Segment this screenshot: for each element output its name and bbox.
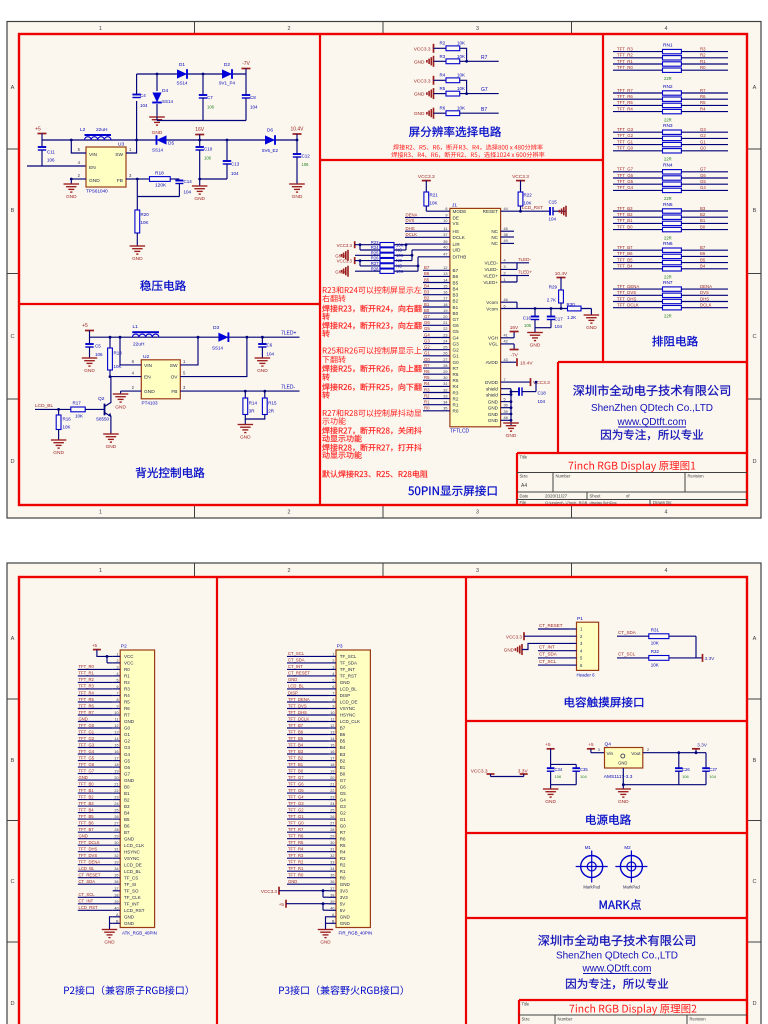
svg-text:G3: G3	[340, 804, 347, 809]
P3 pin 3 TF_INT	[329, 668, 337, 670]
svg-text:-7V: -7V	[510, 353, 518, 359]
pin 2	[70, 178, 73, 181]
pin GND 39	[501, 413, 511, 415]
svg-text:GND: GND	[335, 253, 345, 258]
svg-text:C: C	[752, 334, 756, 340]
P3 pin 26 G1	[329, 818, 337, 820]
net TFT_G7	[287, 779, 329, 781]
svg-text:22: 22	[114, 789, 118, 793]
svg-text:R2: R2	[124, 680, 130, 685]
net CT_INT	[78, 903, 113, 905]
pin 2 GND	[121, 390, 142, 392]
svg-text:G0: G0	[124, 726, 131, 731]
wire R14 R15 join	[245, 415, 264, 420]
svg-text:SW: SW	[170, 363, 178, 369]
ground AMS	[616, 788, 632, 790]
svg-text:www.QDtft.com: www.QDtft.com	[617, 417, 687, 428]
svg-text:R28: R28	[371, 266, 379, 271]
svg-text:B2: B2	[424, 296, 430, 301]
svg-text:B4: B4	[453, 286, 459, 291]
P3 pin 6 LCD_BL	[329, 688, 337, 690]
P3 pin 8 LCD_DE	[329, 701, 337, 703]
svg-text:VCC3.3: VCC3.3	[261, 889, 278, 894]
svg-text:L1: L1	[133, 324, 139, 330]
svg-text:1.2K: 1.2K	[567, 315, 576, 320]
svg-text:CT_SDA: CT_SDA	[288, 658, 305, 663]
resistor RN1.1	[613, 51, 663, 53]
svg-text:15: 15	[443, 284, 447, 288]
svg-text:G2: G2	[340, 810, 347, 815]
svg-text:C35: C35	[580, 767, 588, 772]
svg-text:TFT_R2: TFT_R2	[617, 53, 633, 58]
P3 pin 34 R1	[329, 870, 337, 872]
net TFT_R4	[78, 695, 113, 697]
svg-text:R27: R27	[371, 261, 379, 266]
svg-text:TF_SDA: TF_SDA	[340, 661, 357, 666]
svg-text:18: 18	[114, 763, 118, 767]
P2 pin 33 LCD_DE	[113, 864, 121, 866]
svg-text:9V1_P4: 9V1_P4	[219, 81, 236, 86]
svg-text:R5: R5	[124, 700, 130, 705]
section title regulator	[140, 280, 186, 291]
resistor RN4.3	[613, 183, 663, 185]
svg-text:23: 23	[114, 796, 118, 800]
svg-text:C11: C11	[47, 150, 55, 155]
svg-text:26: 26	[443, 352, 447, 356]
charge pump vertical	[136, 101, 138, 140]
svg-text:3R: 3R	[249, 409, 256, 414]
wire out caps gnd	[623, 784, 706, 786]
ground C6	[255, 357, 271, 359]
svg-text:ATK_RGB_40PIN: ATK_RGB_40PIN	[122, 931, 157, 936]
connector P3 body	[336, 650, 370, 928]
svg-text:B1: B1	[700, 218, 706, 223]
svg-text:TFT_G1: TFT_G1	[79, 729, 95, 734]
svg-text:C: C	[10, 334, 14, 340]
svg-text:GND: GND	[89, 178, 100, 184]
svg-text:35: 35	[330, 874, 334, 878]
net TFT_G1	[78, 734, 113, 736]
svg-text:GND: GND	[144, 389, 155, 395]
svg-text:3: 3	[504, 265, 506, 269]
svg-text:A: A	[11, 636, 15, 642]
svg-text:TFT_DVS: TFT_DVS	[79, 853, 98, 858]
svg-text:TFT_R0: TFT_R0	[617, 65, 633, 70]
page 2 sheet background	[7, 563, 761, 1024]
svg-text:R20: R20	[141, 212, 150, 217]
svg-text:TFT_G4: TFT_G4	[617, 185, 634, 190]
pin G5	[423, 330, 450, 332]
svg-text:GND: GND	[340, 921, 351, 926]
svg-text:www.QDtft.com: www.QDtft.com	[582, 964, 652, 975]
svg-text:3V3: 3V3	[340, 889, 349, 894]
svg-text:GND: GND	[545, 799, 556, 805]
svg-text:GND: GND	[335, 269, 345, 274]
resistor RN4.1	[613, 171, 663, 173]
svg-text:TFT_R3: TFT_R3	[617, 46, 633, 51]
svg-text:U/D: U/D	[453, 248, 462, 253]
P2 pin 35 TF_CS	[113, 877, 121, 879]
svg-text:R5: R5	[424, 375, 430, 380]
svg-text:TFT_B0: TFT_B0	[79, 781, 95, 786]
pin Vcom 6	[501, 308, 517, 310]
net TFT_B3	[287, 753, 329, 755]
P3 pin 5 GND	[329, 681, 337, 683]
P3 pin 37 3V3	[329, 890, 337, 892]
svg-text:46: 46	[504, 298, 508, 302]
page1 top zone band	[194, 22, 196, 35]
svg-text:TFT_R6: TFT_R6	[288, 834, 304, 839]
power flag VCC3.3 cluster 2	[354, 257, 356, 264]
capacitor C6	[261, 336, 264, 339]
svg-text:G1: G1	[340, 817, 347, 822]
net TFT_R1	[78, 675, 113, 677]
section title resolution	[409, 126, 501, 137]
svg-text:TFT_B0: TFT_B0	[288, 768, 304, 773]
svg-text:2: 2	[332, 659, 334, 663]
fiducial M1 MarkPad	[581, 856, 603, 878]
svg-text:31: 31	[114, 848, 118, 852]
svg-text:C14: C14	[184, 179, 193, 184]
svg-text:C: C	[752, 879, 756, 885]
svg-text:RN5: RN5	[663, 202, 673, 208]
svg-text:G2: G2	[124, 739, 131, 744]
wire gnd bus	[510, 389, 512, 425]
svg-text:P2: P2	[121, 644, 127, 650]
svg-text:TF_INT: TF_INT	[124, 902, 140, 907]
svg-text:LCD_BL: LCD_BL	[35, 403, 53, 409]
svg-text:14: 14	[114, 737, 118, 741]
capacitor C18	[510, 390, 513, 393]
pin VLED+ 1	[501, 281, 517, 283]
svg-text:B1: B1	[340, 765, 346, 770]
svg-text:B3: B3	[124, 804, 130, 809]
svg-text:TFT_R3: TFT_R3	[79, 684, 95, 689]
svg-text:R21: R21	[430, 193, 439, 198]
svg-text:34: 34	[330, 867, 334, 871]
svg-text:Q4: Q4	[605, 742, 612, 748]
pin R6	[423, 373, 450, 375]
svg-text:CT_RESET: CT_RESET	[539, 623, 563, 628]
svg-text:R5: R5	[440, 86, 446, 91]
P1 pin 2	[569, 635, 577, 637]
pin 5 OV	[180, 337, 247, 376]
net CT_SCL	[78, 896, 113, 898]
net TFT_G7	[78, 773, 113, 775]
svg-text:5: 5	[332, 678, 334, 682]
wire Vcom node	[516, 302, 518, 308]
ground R16	[51, 439, 66, 441]
svg-text:TFT_R5: TFT_R5	[79, 697, 95, 702]
svg-text:B5: B5	[340, 739, 346, 744]
svg-text:20: 20	[443, 315, 447, 319]
svg-text:C18: C18	[538, 391, 547, 396]
net DISP	[287, 695, 329, 697]
svg-text:Vcom: Vcom	[486, 306, 498, 311]
svg-text:TFT_R0: TFT_R0	[288, 873, 304, 878]
svg-text:GND: GND	[53, 450, 64, 456]
wire main rail	[42, 139, 297, 141]
svg-text:TFT_B2: TFT_B2	[617, 212, 633, 217]
svg-text:TFT_B0: TFT_B0	[617, 224, 633, 229]
P3 pin 31 R4	[329, 851, 337, 853]
svg-text:B4: B4	[700, 264, 706, 269]
svg-text:R0: R0	[453, 409, 459, 414]
svg-text:22R: 22R	[664, 157, 672, 162]
svg-text:CT_SCL: CT_SCL	[539, 659, 557, 664]
resistor RN6.2	[613, 255, 663, 257]
net TFT_B2	[78, 799, 113, 801]
svg-text:2: 2	[288, 510, 291, 516]
pin G3	[423, 343, 450, 345]
svg-text:DE: DE	[453, 215, 459, 220]
svg-text:B2: B2	[700, 212, 706, 217]
net CT_SCL	[287, 655, 329, 657]
svg-text:G2: G2	[424, 345, 430, 350]
svg-text:7: 7	[504, 378, 506, 382]
svg-text:C17: C17	[555, 316, 564, 321]
svg-text:7LED-: 7LED-	[281, 385, 296, 391]
svg-text:TFT_G3: TFT_G3	[617, 127, 634, 132]
svg-text:G6: G6	[700, 173, 706, 178]
resistor RN2.4	[613, 111, 663, 113]
page 1 sheet background	[7, 22, 761, 519]
pin G1	[423, 355, 450, 357]
P3 pin B GND	[329, 922, 337, 924]
svg-text:R5: R5	[453, 378, 459, 383]
svg-text:B2: B2	[124, 797, 130, 802]
pin B1	[423, 306, 450, 308]
svg-text:20: 20	[330, 776, 334, 780]
svg-text:FB: FB	[117, 178, 123, 184]
svg-text:TFT_G2: TFT_G2	[288, 807, 304, 812]
svg-text:41: 41	[504, 334, 508, 338]
svg-text:38: 38	[504, 233, 508, 237]
net TFT_G2	[78, 740, 113, 742]
svg-text:HSYNC: HSYNC	[124, 849, 141, 854]
svg-text:2: 2	[288, 26, 291, 32]
P2 pin 2 VCC	[113, 662, 121, 664]
svg-text:106: 106	[302, 162, 310, 167]
svg-text:2: 2	[288, 568, 291, 574]
resistor RN3.2	[613, 137, 663, 139]
svg-text:1: 1	[332, 652, 334, 656]
svg-text:104: 104	[267, 352, 275, 357]
svg-text:G5: G5	[700, 179, 706, 184]
resistor RN3.1	[613, 131, 663, 133]
svg-text:TFT_R4: TFT_R4	[79, 690, 95, 695]
svg-text:R24: R24	[371, 245, 379, 250]
svg-text:31: 31	[330, 848, 334, 852]
net TFT_B6	[287, 734, 329, 736]
svg-text:R3: R3	[453, 390, 459, 395]
net CT_SCL	[538, 664, 569, 666]
svg-text:30: 30	[114, 841, 118, 845]
svg-text:MarkPad: MarkPad	[623, 885, 640, 890]
svg-text:GND: GND	[79, 775, 88, 780]
annotation red text block	[323, 286, 422, 293]
P2 pin 40 LCD_RST	[113, 909, 121, 911]
svg-text:CT_SCL: CT_SCL	[79, 892, 96, 897]
svg-text:G4: G4	[453, 335, 460, 340]
resistor R16	[57, 408, 60, 411]
P2 pin 36 TF_SI	[113, 883, 121, 885]
svg-text:R3: R3	[424, 387, 430, 392]
svg-text:7LED+: 7LED+	[518, 270, 532, 275]
P2 pin 39 TF_INT	[113, 903, 121, 905]
P2 pin 22 B1	[113, 792, 121, 794]
svg-text:G5: G5	[424, 326, 430, 331]
capacitor C5	[89, 337, 91, 344]
pin shield 2	[501, 394, 511, 396]
svg-text:R7: R7	[340, 830, 346, 835]
svg-text:C27: C27	[709, 767, 717, 772]
pin R3	[423, 392, 450, 394]
P2 pin 13 G1	[113, 734, 121, 736]
svg-text:NC: NC	[491, 229, 498, 234]
svg-text:EN: EN	[89, 165, 96, 171]
svg-text:10K: 10K	[651, 641, 659, 646]
svg-text:B: B	[753, 208, 757, 214]
net TFT_R7	[78, 714, 113, 716]
svg-text:3: 3	[598, 748, 600, 752]
svg-text:R0: R0	[124, 667, 130, 672]
wire R4 to node	[460, 80, 467, 93]
net TFT_G5	[78, 760, 113, 762]
P2 pin 3 R0	[113, 668, 121, 670]
svg-text:AVDD: AVDD	[486, 360, 499, 365]
svg-text:GND: GND	[586, 325, 597, 331]
svg-text:39: 39	[114, 900, 118, 904]
pin R1	[423, 404, 450, 406]
svg-text:37: 37	[114, 887, 118, 891]
svg-text:106: 106	[524, 323, 532, 328]
connector J1 TFTLCD body	[450, 208, 501, 426]
svg-text:VSYNC: VSYNC	[340, 706, 356, 711]
svg-text:G5: G5	[453, 329, 460, 334]
svg-text:GND: GND	[618, 760, 627, 765]
svg-text:TFT_B4: TFT_B4	[288, 742, 304, 747]
wire pump top rail	[137, 73, 246, 75]
P2 pin 14 G2	[113, 740, 121, 742]
svg-text:B0: B0	[124, 784, 130, 789]
svg-text:VIN: VIN	[144, 363, 153, 369]
ground C16 C17	[527, 332, 543, 334]
net TFT_B7	[287, 727, 329, 729]
svg-text:2: 2	[504, 271, 506, 275]
svg-text:TFT_DVS: TFT_DVS	[288, 703, 307, 708]
svg-text:G7: G7	[424, 314, 430, 319]
svg-text:TFT_G7: TFT_G7	[79, 768, 95, 773]
ground pin2	[70, 179, 72, 184]
svg-text:TFT_R6: TFT_R6	[617, 94, 633, 99]
svg-text:B4: B4	[124, 810, 130, 815]
ground C10	[192, 185, 208, 187]
P2 pin 21 B0	[113, 786, 121, 788]
P2 pin 4 R1	[113, 675, 121, 677]
svg-text:43: 43	[504, 358, 508, 362]
wire R27 left	[360, 265, 380, 267]
resistor RN7.3	[613, 301, 663, 303]
resistor R29	[559, 290, 564, 303]
power flag 16V	[198, 139, 201, 142]
svg-text:DHS: DHS	[406, 226, 415, 231]
svg-text:VS: VS	[453, 221, 459, 226]
P3 pin 33 R2	[329, 864, 337, 866]
svg-text:P3: P3	[337, 644, 343, 650]
resistor R14	[244, 390, 247, 393]
svg-text:GND: GND	[106, 444, 117, 450]
svg-text:VCC: VCC	[124, 661, 134, 666]
P3 pin 11 LCD_CLK	[329, 721, 337, 723]
P3 pin 13 B6	[329, 734, 337, 736]
resistor RN5.2	[613, 216, 663, 218]
svg-text:GND: GND	[66, 194, 77, 200]
resistor R20	[136, 179, 138, 210]
resistor R31	[649, 634, 669, 639]
resistor R5	[446, 91, 460, 96]
svg-text:VGL: VGL	[489, 342, 499, 347]
svg-text:TFT_DHS: TFT_DHS	[288, 710, 307, 715]
svg-text:GND: GND	[288, 879, 297, 884]
svg-text:DCLK: DCLK	[406, 232, 418, 237]
svg-text:3: 3	[332, 665, 334, 669]
svg-text:R16: R16	[63, 417, 72, 422]
P3 pin 39 5V	[329, 903, 337, 905]
svg-text:R7: R7	[481, 55, 488, 61]
svg-text:27: 27	[114, 822, 118, 826]
svg-text:GND: GND	[84, 368, 95, 374]
svg-text:Vcom: Vcom	[486, 300, 498, 305]
svg-text:MarkPad: MarkPad	[583, 885, 600, 890]
svg-text:106: 106	[555, 774, 562, 779]
pin NC45	[501, 230, 514, 232]
P2 pin 12 G0	[113, 727, 121, 729]
P2 pin 8 R5	[113, 701, 121, 703]
svg-text:9: 9	[332, 705, 334, 709]
svg-text:R1: R1	[124, 674, 130, 679]
P3 pin 12 B7	[329, 727, 337, 729]
svg-text:10K: 10K	[457, 86, 465, 91]
svg-text:22: 22	[330, 789, 334, 793]
pin G6	[423, 324, 450, 326]
svg-text:16: 16	[443, 291, 447, 295]
net LCD_BL	[78, 870, 113, 872]
svg-text:R1: R1	[424, 400, 430, 405]
svg-text:Title: Title	[520, 455, 528, 460]
svg-text:TFT_R1: TFT_R1	[79, 671, 95, 676]
wire R24 left	[360, 249, 380, 251]
net TFT_B6	[78, 825, 113, 827]
net R7	[465, 60, 468, 63]
svg-text:33: 33	[114, 861, 118, 865]
svg-text:G:\project\..\7inch_RGB_displa: G:\project\..\7inch_RGB_display.SchDoc	[545, 500, 617, 505]
section title P3	[279, 985, 403, 995]
svg-text:B6: B6	[424, 271, 430, 276]
diode D3	[218, 333, 228, 342]
ground J1 bus	[503, 422, 519, 424]
svg-text:3.3V: 3.3V	[697, 742, 708, 748]
svg-text:TFT_B5: TFT_B5	[79, 814, 95, 819]
net TFT_G3	[287, 805, 329, 807]
ground R14 R15	[238, 424, 254, 426]
svg-text:R2: R2	[424, 393, 430, 398]
svg-text:B7: B7	[124, 830, 130, 835]
svg-text:TFT_DCLK: TFT_DCLK	[79, 840, 100, 845]
svg-text:CT_INT: CT_INT	[539, 645, 555, 650]
svg-text:120K: 120K	[155, 183, 167, 189]
svg-text:5V: 5V	[340, 902, 346, 907]
